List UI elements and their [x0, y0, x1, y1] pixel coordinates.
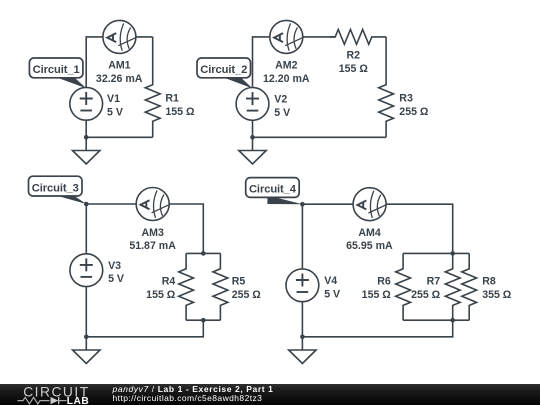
wire parallel pair bottom rail [186, 319, 220, 321]
svg-text:V3: V3 [108, 260, 121, 272]
resistor R1 [145, 37, 160, 137]
svg-text:5 V: 5 V [324, 288, 340, 300]
voltage source V1 [70, 87, 103, 120]
node circuit3 top-left junction (junction) [84, 202, 89, 207]
wire circuit1 top loop (V1 top to R1 top) [86, 37, 153, 88]
resistor R6 [396, 253, 411, 320]
svg-text:255 Ω: 255 Ω [411, 289, 441, 301]
node circuit3 ground junction (junction) [84, 335, 89, 340]
resistor R3 [379, 37, 394, 137]
svg-text:R5: R5 [232, 276, 246, 288]
ammeter AM1 [103, 20, 136, 53]
svg-text:R2: R2 [347, 50, 361, 62]
wire circuit3 top-left rail [86, 203, 136, 205]
svg-text:12.20 mA: 12.20 mA [263, 73, 310, 85]
svg-text:V4: V4 [324, 275, 337, 287]
wire circuit2 top-left (V2 top to R2) [253, 37, 336, 88]
svg-text:R4: R4 [162, 276, 176, 288]
svg-text:355 Ω: 355 Ω [482, 289, 512, 301]
node circuit4 ground junction (junction) [300, 335, 305, 340]
voltage source V3 [70, 254, 103, 287]
ammeter AM3 [136, 188, 169, 221]
node circuit1 ground junction (junction) [84, 135, 89, 140]
flag label Circuit_3 [29, 176, 87, 204]
resistor R8 [462, 253, 477, 320]
svg-text:V2: V2 [274, 93, 287, 105]
svg-text:5 V: 5 V [107, 107, 123, 119]
svg-text:5 V: 5 V [108, 273, 124, 285]
node parallel pair top junction (junction) [201, 251, 206, 256]
wire circuit1 bottom rail [86, 136, 153, 138]
wire V1 bottom to ground node [85, 120, 87, 137]
resistor R4 [179, 253, 194, 320]
resistor R2 [330, 30, 386, 45]
svg-text:R8: R8 [482, 276, 496, 288]
voltage source V2 [236, 88, 269, 121]
ground (circuit 4) [289, 337, 316, 364]
wire AM4 to parallel trio top [386, 204, 453, 253]
CircuitLab logo: resistor-diode squiggle [18, 397, 67, 404]
svg-text:Circuit_3: Circuit_3 [32, 182, 79, 194]
svg-text:V1: V1 [107, 93, 120, 105]
footer bar [0, 384, 540, 405]
wire parallel pair top rail [186, 252, 220, 254]
node parallel trio bottom junction (junction) [450, 318, 455, 323]
node parallel pair bottom junction (junction) [201, 318, 206, 323]
wire parallel trio top rail [403, 252, 469, 254]
svg-text:Circuit_2: Circuit_2 [200, 64, 247, 76]
svg-text:R6: R6 [377, 276, 391, 288]
svg-text:LAB: LAB [67, 396, 89, 405]
flag label Circuit_1 [29, 58, 86, 88]
svg-text:65.95 mA: 65.95 mA [346, 240, 393, 252]
svg-text:155 Ω: 155 Ω [362, 289, 392, 301]
svg-text:155 Ω: 155 Ω [339, 63, 369, 75]
resistor R7 [445, 253, 460, 320]
svg-text:AM3: AM3 [142, 227, 164, 239]
wire circuit4 top-left rail [302, 203, 353, 205]
svg-text:255 Ω: 255 Ω [399, 106, 429, 118]
flag label Circuit_4 [246, 178, 303, 205]
svg-text:5 V: 5 V [274, 107, 290, 119]
svg-text:R3: R3 [399, 93, 413, 105]
wire V2 bottom to ground node [252, 120, 254, 137]
svg-text:Circuit_4: Circuit_4 [249, 184, 297, 196]
svg-text:R7: R7 [427, 276, 441, 288]
ground (circuit 3) [73, 337, 100, 364]
ground (circuit 1) [73, 137, 100, 164]
svg-text:R1: R1 [165, 93, 179, 105]
svg-text:AM4: AM4 [358, 227, 380, 239]
wire AM3 to parallel pair top [169, 204, 203, 253]
flag label Circuit_2 [197, 58, 253, 88]
ammeter AM4 [353, 188, 386, 221]
svg-text:155 Ω: 155 Ω [165, 106, 195, 118]
svg-text:AM2: AM2 [275, 60, 297, 72]
wire circuit2 bottom rail [253, 136, 387, 138]
wire circuit3 left vertical to V3 [85, 204, 87, 254]
wire circuit4 left vertical to V4 [301, 204, 303, 269]
wire V4 bottom to ground node [301, 302, 303, 337]
resistor R5 [213, 253, 228, 320]
voltage source V4 [286, 269, 319, 302]
node circuit4 top-left junction (junction) [300, 202, 305, 207]
svg-text:http://circuitlab.com/c5e8awdh: http://circuitlab.com/c5e8awdh82tz3 [113, 393, 263, 403]
svg-text:AM1: AM1 [108, 60, 130, 72]
wire parallel trio bottom rail [403, 319, 469, 321]
node parallel trio top junction (junction) [450, 251, 455, 256]
ground (circuit 2) [239, 137, 266, 164]
svg-text:155 Ω: 155 Ω [146, 289, 176, 301]
wire V3 bottom to ground node [85, 287, 87, 337]
node circuit2 ground junction (junction) [250, 135, 255, 140]
svg-text:Circuit_1: Circuit_1 [33, 64, 80, 76]
wire circuit4 bottom rail [302, 320, 452, 337]
svg-text:51.87 mA: 51.87 mA [129, 240, 176, 252]
wire circuit3 bottom rail [86, 320, 203, 337]
svg-text:32.26 mA: 32.26 mA [96, 73, 143, 85]
svg-text:255 Ω: 255 Ω [232, 289, 262, 301]
ammeter AM2 [270, 20, 303, 53]
